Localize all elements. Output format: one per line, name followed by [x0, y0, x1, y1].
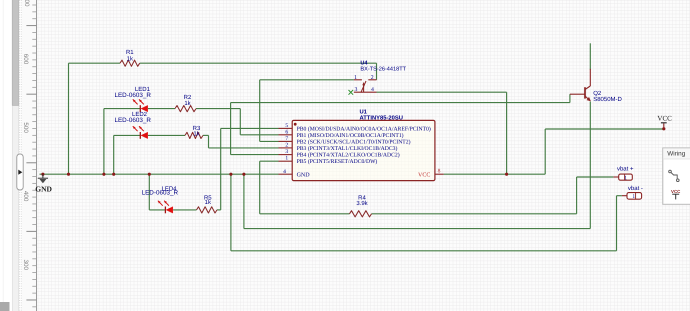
svg-text:00: 00 — [23, 0, 30, 7]
svg-text:vbat +: vbat + — [617, 166, 634, 173]
svg-text:600: 600 — [22, 54, 29, 65]
svg-text:PB3 (PCINT3/XTAL1/CLKI/OC1B/AD: PB3 (PCINT3/XTAL1/CLKI/OC1B/ADC3) — [297, 146, 398, 152]
svg-text:GND: GND — [35, 185, 52, 194]
svg-text:PB1 (MISO/DO/AIN1/OC0B/OC1A/PC: PB1 (MISO/DO/AIN1/OC0B/OC1A/PCINT1) — [297, 133, 404, 139]
svg-text:R1: R1 — [126, 49, 134, 56]
svg-text:8: 8 — [438, 168, 441, 174]
svg-text:R2: R2 — [184, 94, 192, 101]
svg-text:300: 300 — [22, 260, 29, 271]
svg-text:1: 1 — [632, 194, 635, 200]
svg-text:1k: 1k — [205, 199, 212, 206]
svg-text:VCC: VCC — [418, 172, 430, 178]
svg-text:2: 2 — [371, 75, 374, 81]
svg-text:1: 1 — [285, 156, 288, 162]
svg-text:BX-TS-26-4418TT: BX-TS-26-4418TT — [360, 66, 406, 72]
svg-text:vbat -: vbat - — [628, 185, 643, 192]
svg-text:6: 6 — [285, 129, 288, 135]
svg-text:VCC: VCC — [671, 189, 681, 194]
svg-text:VCC: VCC — [657, 114, 672, 122]
svg-text:3.9k: 3.9k — [356, 200, 368, 207]
svg-text:1k: 1k — [184, 100, 191, 107]
svg-text:PB2 (SCK/USCK/SCL/ADC1/T0/INT0: PB2 (SCK/USCK/SCL/ADC1/T0/INT0/PCINT2) — [297, 139, 411, 145]
svg-text:4: 4 — [371, 87, 374, 93]
svg-text:500: 500 — [22, 122, 29, 133]
svg-text:ATTINY85-20SU: ATTINY85-20SU — [360, 114, 403, 121]
svg-text:1: 1 — [624, 176, 627, 182]
svg-text:LED-0603_R: LED-0603_R — [114, 117, 151, 124]
svg-text:PB4 (PCINT4/XTAL2/CLKO/OC1B/AD: PB4 (PCINT4/XTAL2/CLKO/OC1B/ADC2) — [297, 153, 400, 159]
svg-text:3: 3 — [285, 149, 288, 155]
svg-text:7: 7 — [285, 136, 288, 142]
svg-text:2: 2 — [285, 142, 288, 148]
svg-text:Q2: Q2 — [593, 90, 602, 97]
svg-text:GND: GND — [297, 172, 311, 178]
svg-text:LED-0603_R: LED-0603_R — [142, 190, 179, 197]
svg-text:S8050M-D: S8050M-D — [593, 96, 622, 103]
svg-text:PB5 (PCINT5/RESET/ADC0/DW): PB5 (PCINT5/RESET/ADC0/DW) — [297, 159, 378, 165]
svg-text:LED-0603_R: LED-0603_R — [114, 92, 151, 99]
svg-text:1k: 1k — [127, 56, 134, 63]
svg-text:400: 400 — [22, 191, 29, 202]
svg-text:5: 5 — [285, 123, 288, 129]
svg-text:3: 3 — [355, 87, 358, 93]
svg-text:1k: 1k — [193, 131, 200, 138]
svg-text:4: 4 — [283, 169, 286, 175]
svg-text:Wiring: Wiring — [667, 151, 686, 158]
svg-text:1: 1 — [354, 75, 357, 81]
svg-text:PB0 (MOSI/DI/SDA/AIN0/OC0A/OC1: PB0 (MOSI/DI/SDA/AIN0/OC0A/OC1A/AREF/PCI… — [297, 126, 431, 132]
